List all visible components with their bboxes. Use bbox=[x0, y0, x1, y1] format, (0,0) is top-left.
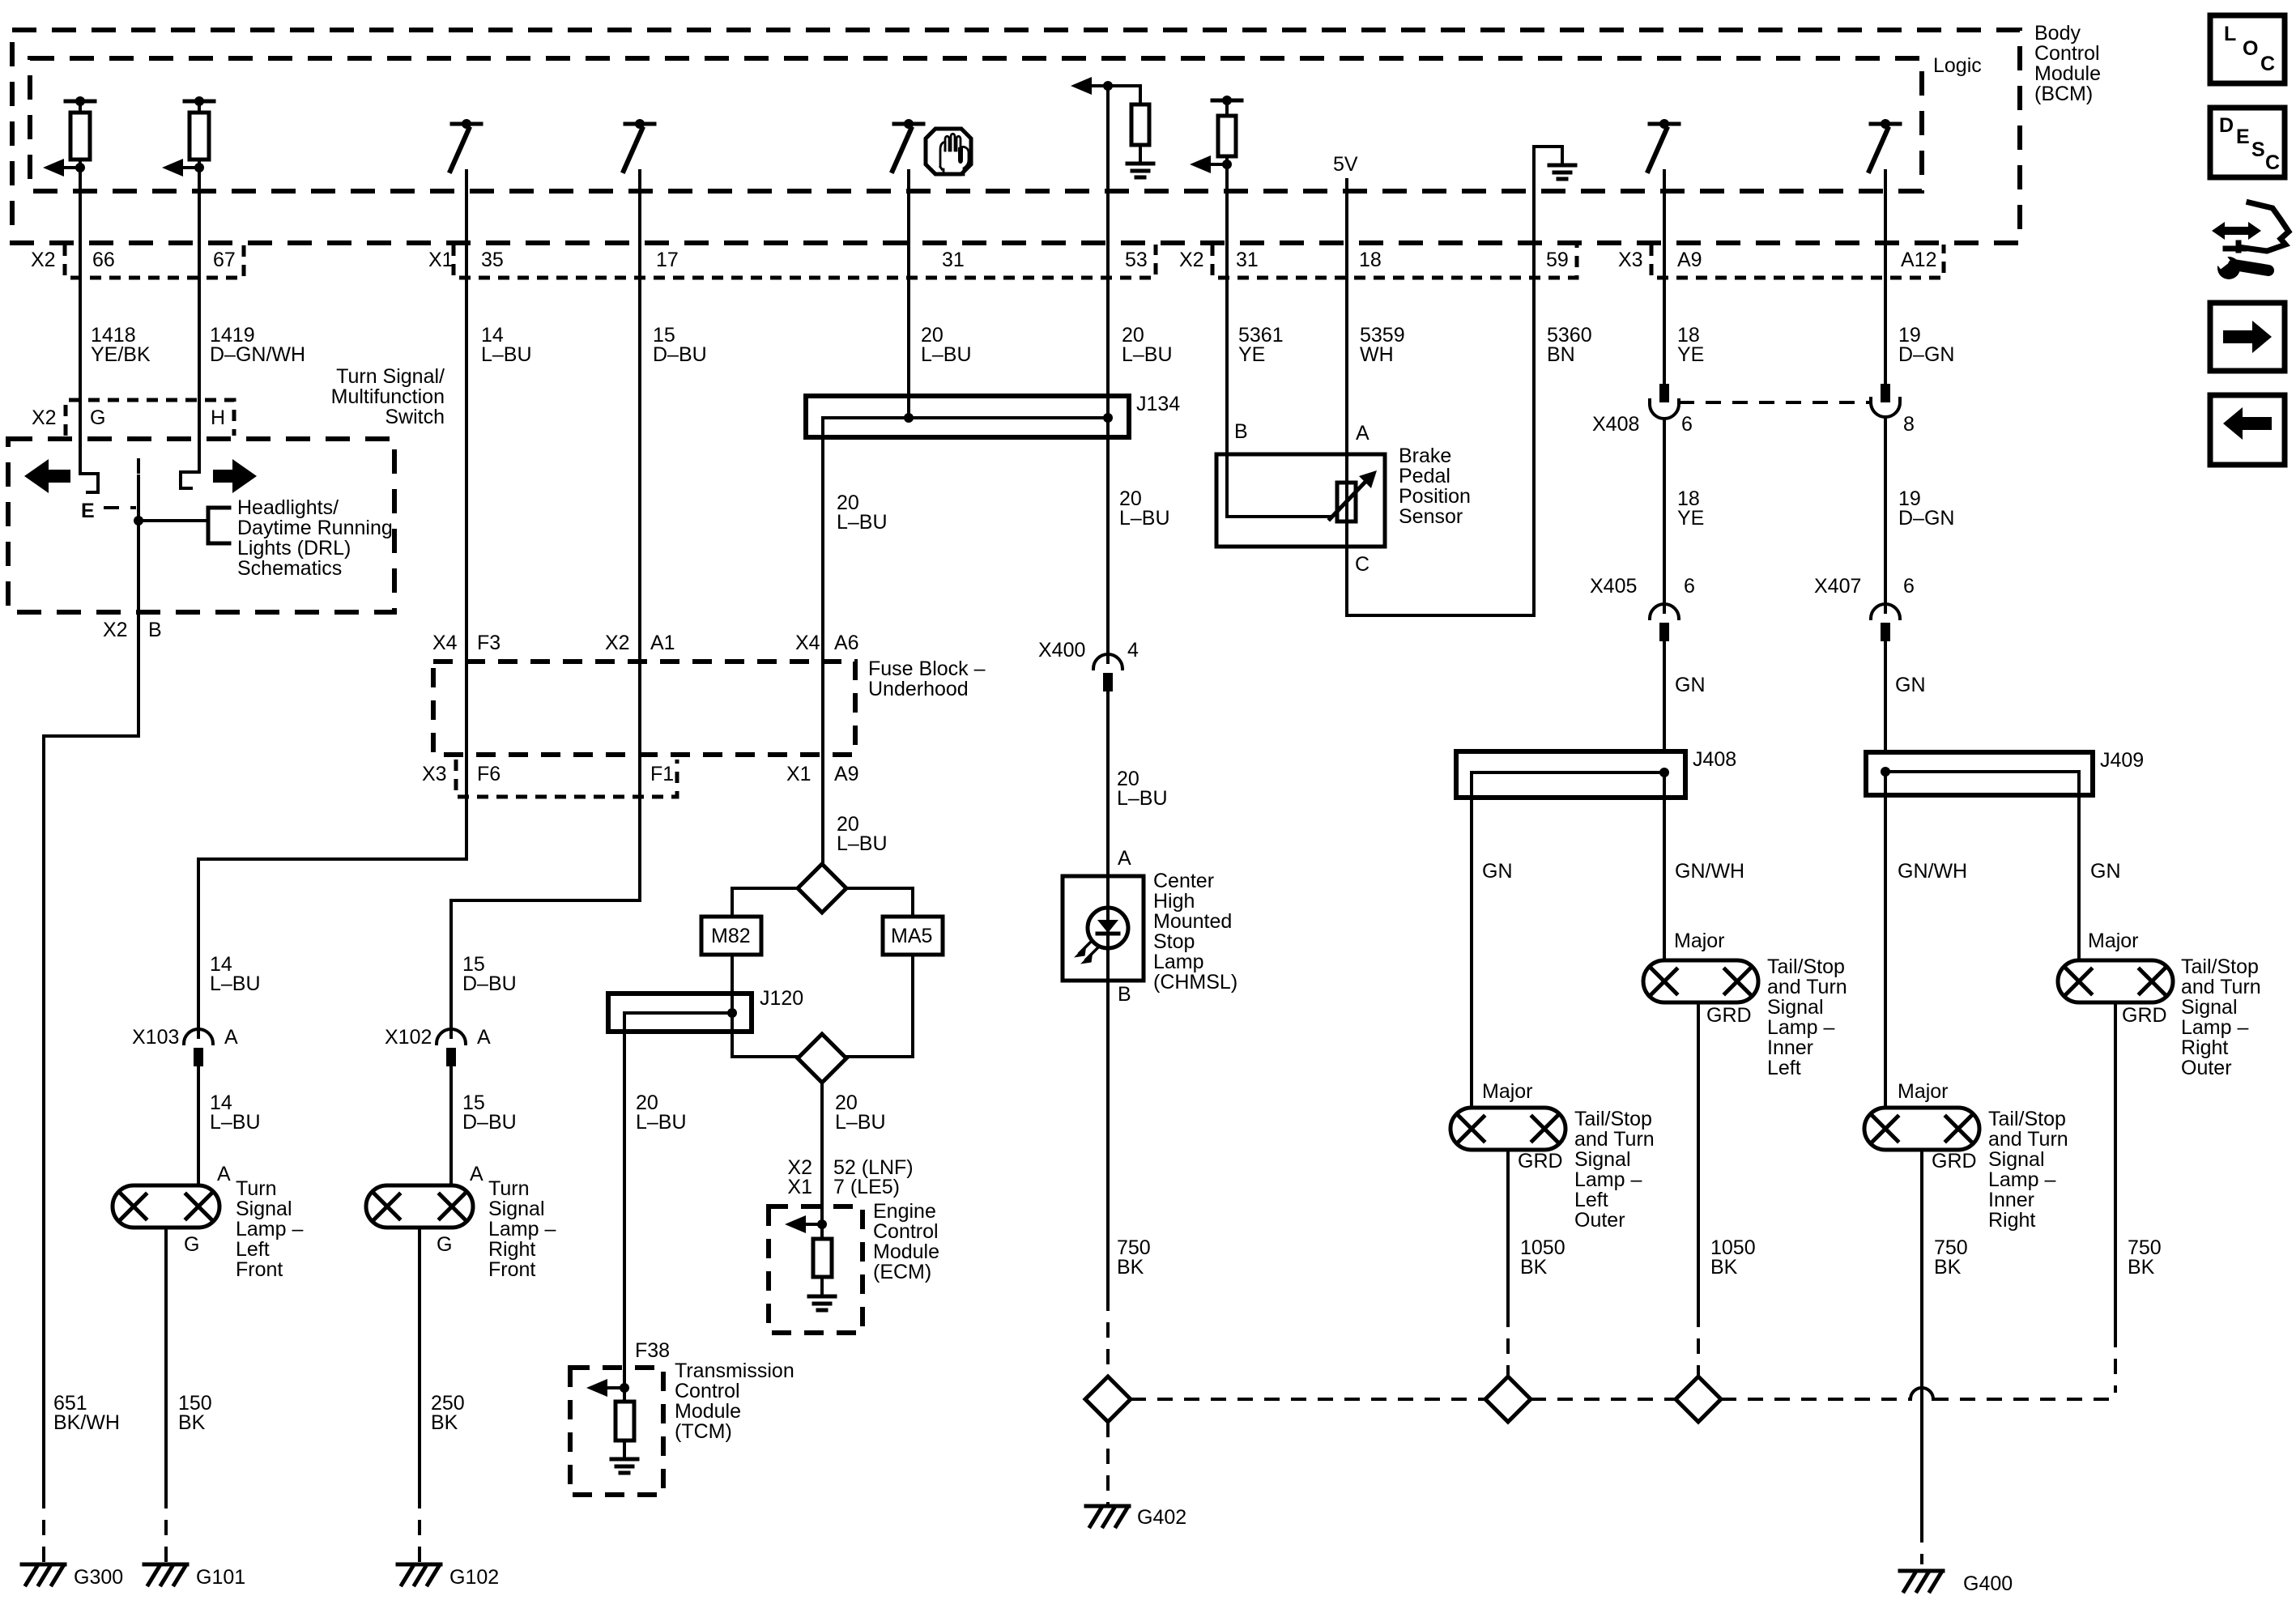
svg-text:Right: Right bbox=[488, 1238, 535, 1261]
wire 651 BK/WH to G300 bbox=[44, 612, 138, 1493]
svg-text:7 (LE5): 7 (LE5) bbox=[833, 1176, 900, 1198]
svg-text:YE: YE bbox=[1677, 343, 1704, 366]
fuse M82/MA5 top splice diamond bbox=[798, 864, 846, 913]
svg-text:Left: Left bbox=[236, 1238, 270, 1261]
splice J120 bbox=[608, 994, 752, 1032]
ground G102 bbox=[398, 1563, 441, 1567]
svg-text:O: O bbox=[2243, 37, 2258, 60]
inline connector X103 pin A bbox=[184, 1029, 213, 1044]
svg-text:B: B bbox=[1118, 983, 1131, 1006]
svg-text:Control: Control bbox=[2034, 42, 2100, 65]
wire 1050 BK left outer bbox=[1506, 1150, 1510, 1312]
svg-text:D–BU: D–BU bbox=[462, 972, 517, 995]
svg-text:Logic: Logic bbox=[1933, 54, 1982, 77]
svg-text:and Turn: and Turn bbox=[1767, 976, 1847, 998]
svg-text:Right: Right bbox=[2181, 1036, 2228, 1059]
wire from pin 67 to right-turn contact bbox=[181, 168, 199, 488]
svg-text:6: 6 bbox=[1684, 575, 1695, 598]
wire 15 D-BU from pin 17 through fuse A1-F1 to X102 bbox=[451, 171, 640, 1037]
svg-text:D–GN: D–GN bbox=[1898, 507, 1954, 530]
svg-text:B: B bbox=[1234, 420, 1248, 443]
DESC icon box bbox=[2210, 108, 2285, 177]
svg-text:Pedal: Pedal bbox=[1399, 465, 1450, 487]
svg-text:BK: BK bbox=[1520, 1256, 1548, 1279]
LOC icon box bbox=[2210, 15, 2285, 83]
wire 20 L-BU from pin 31 to J134 bbox=[907, 171, 910, 418]
resistor driver for pin 66 bbox=[66, 100, 95, 104]
Engine Control Module (ECM) dashed box bbox=[769, 1206, 863, 1333]
wire 14 L-BU from pin 35 through fuse F3-F6 to X103 bbox=[198, 171, 466, 1037]
Center High Mounted Stop Lamp (CHMSL) box bbox=[1063, 876, 1144, 981]
Turn Signal Lamp - Right Front bulb bbox=[366, 1185, 473, 1228]
svg-text:Multifunction: Multifunction bbox=[331, 385, 445, 408]
svg-text:B: B bbox=[148, 619, 162, 641]
Body Control Module (BCM) outer dashed box bbox=[12, 30, 2020, 243]
svg-text:L: L bbox=[2224, 23, 2236, 45]
svg-text:MA5: MA5 bbox=[891, 925, 932, 947]
hand-in-octagon icon bbox=[926, 129, 971, 174]
splice J408 bbox=[1456, 751, 1685, 798]
svg-text:5V: 5V bbox=[1333, 153, 1358, 176]
svg-text:Lamp: Lamp bbox=[1153, 951, 1204, 973]
Logic inner dashed box bbox=[30, 58, 1922, 191]
svg-text:Signal: Signal bbox=[488, 1198, 545, 1220]
svg-text:Tail/Stop: Tail/Stop bbox=[1988, 1108, 2066, 1130]
svg-text:D–BU: D–BU bbox=[462, 1111, 517, 1134]
switch driver for pin A12 bbox=[1871, 122, 1900, 126]
svg-text:Control: Control bbox=[873, 1220, 939, 1243]
svg-text:(BCM): (BCM) bbox=[2034, 83, 2093, 105]
CHMSL internal wire bbox=[1106, 876, 1110, 981]
stop lamp supply: arrow, junction, resistor to ground (pin 53) bbox=[1071, 77, 1092, 95]
svg-text:(ECM): (ECM) bbox=[873, 1261, 931, 1283]
svg-text:F1: F1 bbox=[650, 763, 674, 785]
svg-text:(TCM): (TCM) bbox=[675, 1420, 732, 1443]
svg-text:F3: F3 bbox=[477, 632, 501, 654]
svg-text:YE: YE bbox=[1238, 343, 1265, 366]
connector box X3 pins A9 A12 bbox=[1651, 245, 1944, 278]
svg-text:L–BU: L–BU bbox=[481, 343, 532, 366]
svg-text:J134: J134 bbox=[1136, 393, 1180, 415]
svg-text:Turn: Turn bbox=[488, 1177, 529, 1200]
svg-text:A6: A6 bbox=[834, 632, 859, 654]
svg-text:Right: Right bbox=[1988, 1209, 2035, 1232]
svg-text:Turn Signal/: Turn Signal/ bbox=[336, 365, 445, 388]
connector box X2 right pins 31 18 59 bbox=[1212, 245, 1577, 278]
resistor driver for pin 67 bbox=[185, 100, 214, 104]
svg-text:High: High bbox=[1153, 890, 1195, 913]
svg-text:C: C bbox=[1355, 553, 1370, 576]
inline connector X400 pin 4 bbox=[1106, 615, 1110, 662]
wire 5361 YE from pin 31 to sensor pin B bbox=[1225, 164, 1229, 454]
fuse M82 bbox=[701, 917, 761, 955]
wire MA5 to lower diamond bbox=[846, 955, 913, 1057]
wire from E node to DRL reference bracket bbox=[138, 519, 208, 522]
svg-text:Sensor: Sensor bbox=[1399, 505, 1463, 528]
svg-text:and Turn: and Turn bbox=[1988, 1128, 2068, 1151]
svg-text:L–BU: L–BU bbox=[1119, 507, 1170, 530]
svg-text:X2: X2 bbox=[103, 619, 128, 641]
svg-text:L–BU: L–BU bbox=[1122, 343, 1173, 366]
svg-text:X400: X400 bbox=[1038, 639, 1085, 662]
Tail/Stop lamp left outer bulb bbox=[1450, 1108, 1565, 1150]
go-forward arrow icon box bbox=[2210, 303, 2285, 371]
svg-text:BK/WH: BK/WH bbox=[53, 1411, 120, 1434]
svg-text:Left: Left bbox=[1574, 1189, 1608, 1211]
svg-text:YE: YE bbox=[1677, 507, 1704, 530]
splice J134 bbox=[806, 396, 1129, 437]
svg-text:59: 59 bbox=[1546, 249, 1569, 271]
svg-text:6: 6 bbox=[1681, 413, 1693, 436]
svg-text:X1: X1 bbox=[787, 1176, 812, 1198]
BCM internal ground (pin 59) bbox=[1534, 147, 1562, 165]
svg-text:J408: J408 bbox=[1693, 748, 1736, 771]
wire 250 BK to G102 bbox=[418, 1228, 421, 1493]
svg-text:F38: F38 bbox=[635, 1339, 670, 1362]
inline connector X408 pin 8 bbox=[1881, 384, 1890, 402]
svg-text:Mounted: Mounted bbox=[1153, 910, 1232, 933]
ground G402 bbox=[1086, 1504, 1129, 1508]
Turn Signal/Multifunction Switch dashed box bbox=[8, 439, 394, 612]
svg-text:Left: Left bbox=[1767, 1057, 1801, 1079]
svg-text:A1: A1 bbox=[650, 632, 675, 654]
svg-text:L–BU: L–BU bbox=[1117, 787, 1168, 810]
svg-text:(CHMSL): (CHMSL) bbox=[1153, 971, 1237, 994]
inline connector X408 pin 6 bbox=[1659, 384, 1669, 402]
svg-text:Major: Major bbox=[1482, 1080, 1533, 1103]
svg-text:GN: GN bbox=[1895, 674, 1926, 696]
Tail/Stop lamp right outer bulb bbox=[2058, 960, 2173, 1002]
wire 18 YE from pin A9 to X408-6 bbox=[1663, 171, 1666, 384]
svg-text:Outer: Outer bbox=[2181, 1057, 2232, 1079]
svg-text:BK: BK bbox=[1117, 1256, 1144, 1279]
Tail/Stop lamp inner right bulb bbox=[1864, 1108, 1979, 1150]
svg-text:Lights (DRL): Lights (DRL) bbox=[237, 537, 351, 560]
svg-text:Fuse Block –: Fuse Block – bbox=[868, 657, 986, 680]
svg-text:X1: X1 bbox=[428, 249, 454, 271]
svg-text:Lamp –: Lamp – bbox=[1574, 1168, 1642, 1191]
svg-text:X407: X407 bbox=[1814, 575, 1861, 598]
Brake Pedal Position Sensor box bbox=[1216, 454, 1385, 547]
svg-text:GRD: GRD bbox=[1932, 1150, 1977, 1172]
svg-text:A9: A9 bbox=[1677, 249, 1702, 271]
svg-text:G102: G102 bbox=[449, 1566, 499, 1589]
component location icon (car with arrow and wrench) bbox=[2212, 202, 2289, 279]
svg-text:6: 6 bbox=[1903, 575, 1915, 598]
ground link diamond inner left bbox=[1676, 1377, 1721, 1422]
wire 20 L-BU from diamond to ECM bbox=[820, 1083, 824, 1224]
svg-text:X408: X408 bbox=[1592, 413, 1639, 436]
svg-text:53: 53 bbox=[1125, 249, 1148, 271]
svg-text:X2: X2 bbox=[605, 632, 630, 654]
svg-text:D–BU: D–BU bbox=[653, 343, 707, 366]
svg-text:G: G bbox=[437, 1233, 452, 1256]
wire M82 to J120 bbox=[732, 955, 798, 1057]
svg-text:Tail/Stop: Tail/Stop bbox=[2181, 955, 2259, 978]
connector box F6 F1 bbox=[456, 760, 677, 797]
svg-text:A: A bbox=[1356, 422, 1370, 445]
svg-text:and Turn: and Turn bbox=[2181, 976, 2261, 998]
svg-text:Signal: Signal bbox=[1574, 1148, 1631, 1171]
svg-text:31: 31 bbox=[942, 249, 965, 271]
svg-text:GN: GN bbox=[1675, 674, 1706, 696]
svg-text:Brake: Brake bbox=[1399, 445, 1451, 467]
svg-text:Engine: Engine bbox=[873, 1200, 936, 1223]
svg-text:Daytime Running: Daytime Running bbox=[237, 517, 393, 539]
wire 19 D-GN from pin A12 to X408-8 bbox=[1884, 171, 1887, 384]
svg-text:Module: Module bbox=[675, 1400, 741, 1423]
svg-text:M82: M82 bbox=[711, 925, 751, 947]
svg-text:Control: Control bbox=[675, 1380, 740, 1402]
svg-text:Major: Major bbox=[1898, 1080, 1949, 1103]
svg-text:Lamp –: Lamp – bbox=[1767, 1016, 1834, 1039]
svg-text:A: A bbox=[217, 1163, 231, 1185]
svg-text:GRD: GRD bbox=[1706, 1004, 1752, 1027]
svg-text:Signal: Signal bbox=[1767, 996, 1824, 1019]
svg-text:X102: X102 bbox=[385, 1026, 432, 1049]
svg-text:G: G bbox=[90, 406, 105, 429]
wire 5359 WH 5V to sensor pin A bbox=[1345, 180, 1348, 454]
svg-text:67: 67 bbox=[213, 249, 236, 271]
wire 5360 BN from sensor pin C to pin 59 and BCM ground bbox=[1347, 147, 1534, 615]
inline connector X407 pin 6 bbox=[1871, 604, 1900, 619]
svg-text:Outer: Outer bbox=[1574, 1209, 1625, 1232]
svg-text:X1: X1 bbox=[786, 763, 811, 785]
svg-text:Underhood: Underhood bbox=[868, 678, 969, 700]
svg-text:4: 4 bbox=[1127, 639, 1139, 662]
svg-text:X2: X2 bbox=[1179, 249, 1204, 271]
wire 150 BK to G101 bbox=[164, 1228, 168, 1493]
wire 750 BK right outer bbox=[2114, 1002, 2117, 1332]
svg-text:Lamp –: Lamp – bbox=[488, 1218, 556, 1240]
svg-text:GN: GN bbox=[2090, 860, 2121, 883]
ECM internal arrow and resistor to ground bbox=[785, 1215, 806, 1233]
svg-text:A12: A12 bbox=[1901, 249, 1936, 271]
svg-text:Major: Major bbox=[2088, 930, 2139, 952]
left turn filled arrow bbox=[24, 459, 70, 493]
svg-text:A: A bbox=[477, 1026, 491, 1049]
svg-text:Tail/Stop: Tail/Stop bbox=[1574, 1108, 1652, 1130]
svg-text:E: E bbox=[2236, 126, 2250, 148]
svg-text:YE/BK: YE/BK bbox=[91, 343, 151, 366]
svg-text:Signal: Signal bbox=[2181, 996, 2238, 1019]
svg-text:A: A bbox=[224, 1026, 238, 1049]
DRL reference bracket bbox=[208, 508, 229, 543]
dashed link X408 6 to 8 bbox=[1679, 401, 1871, 404]
connector box X2 pins G H bbox=[66, 400, 234, 436]
connector box X1 pins 35 17 31 53 bbox=[454, 245, 1156, 278]
crossover bump over 750 BK wire bbox=[1910, 1388, 1933, 1399]
svg-text:X2: X2 bbox=[31, 249, 56, 271]
svg-text:66: 66 bbox=[92, 249, 115, 271]
svg-text:BK: BK bbox=[431, 1411, 458, 1434]
svg-text:BK: BK bbox=[178, 1411, 206, 1434]
svg-text:Signal: Signal bbox=[1988, 1148, 2045, 1171]
svg-text:Headlights/: Headlights/ bbox=[237, 496, 339, 519]
svg-text:L–BU: L–BU bbox=[210, 1111, 261, 1134]
CHMSL LED symbol bbox=[1088, 908, 1128, 948]
svg-text:S: S bbox=[2251, 138, 2265, 161]
wire 1050 BK inner left bbox=[1697, 1002, 1700, 1312]
svg-text:X3: X3 bbox=[422, 763, 447, 785]
svg-text:GRD: GRD bbox=[1518, 1150, 1563, 1172]
svg-text:X405: X405 bbox=[1590, 575, 1637, 598]
switch driver for pin 17 bbox=[625, 122, 654, 126]
switch driver for pin 31 (brake) bbox=[894, 122, 923, 126]
svg-text:BK: BK bbox=[1710, 1256, 1738, 1279]
connector box X2 pins 66 67 bbox=[65, 245, 244, 278]
wire 20 L-BU from J120 to TCM F38 bbox=[623, 1013, 626, 1388]
svg-text:31: 31 bbox=[1236, 249, 1259, 271]
inline connector X102 pin A bbox=[437, 1029, 466, 1044]
svg-text:Tail/Stop: Tail/Stop bbox=[1767, 955, 1845, 978]
svg-text:GN/WH: GN/WH bbox=[1898, 860, 1967, 883]
svg-text:Inner: Inner bbox=[1767, 1036, 1813, 1059]
ground G300 bbox=[22, 1563, 65, 1567]
svg-text:WH: WH bbox=[1360, 343, 1394, 366]
svg-text:X4: X4 bbox=[795, 632, 820, 654]
svg-text:A: A bbox=[1118, 847, 1131, 870]
inline connector X405 pin 6 bbox=[1650, 604, 1679, 619]
svg-text:A9: A9 bbox=[834, 763, 859, 785]
svg-text:Inner: Inner bbox=[1988, 1189, 2034, 1211]
wire 20 L-BU from J134 to fuse A6-A9 bbox=[821, 418, 824, 864]
svg-text:J120: J120 bbox=[760, 987, 803, 1010]
svg-text:Module: Module bbox=[2034, 62, 2101, 85]
svg-text:X103: X103 bbox=[132, 1026, 179, 1049]
switch driver for pin A9 bbox=[1650, 122, 1679, 126]
svg-text:Module: Module bbox=[873, 1240, 939, 1263]
svg-text:and Turn: and Turn bbox=[1574, 1128, 1655, 1151]
ground link diamond left outer bbox=[1485, 1377, 1531, 1422]
svg-text:L–BU: L–BU bbox=[636, 1111, 687, 1134]
Transmission Control Module (TCM) dashed box bbox=[570, 1368, 663, 1495]
svg-text:Position: Position bbox=[1399, 485, 1471, 508]
svg-text:G101: G101 bbox=[196, 1566, 245, 1589]
go-back arrow icon box bbox=[2210, 395, 2285, 465]
svg-text:L–BU: L–BU bbox=[837, 511, 888, 534]
svg-text:GN/WH: GN/WH bbox=[1675, 860, 1744, 883]
svg-text:Lamp –: Lamp – bbox=[2181, 1016, 2248, 1039]
fuse branch wires bbox=[732, 888, 798, 917]
svg-text:Schematics: Schematics bbox=[237, 557, 342, 580]
svg-text:GRD: GRD bbox=[2122, 1004, 2167, 1027]
svg-text:Front: Front bbox=[488, 1258, 535, 1281]
svg-text:F6: F6 bbox=[477, 763, 501, 785]
wire 750 BK from CHMSL to G402 bbox=[1106, 981, 1110, 1296]
svg-text:Transmission: Transmission bbox=[675, 1360, 794, 1382]
svg-text:Front: Front bbox=[236, 1258, 283, 1281]
svg-text:17: 17 bbox=[656, 249, 679, 271]
svg-text:BN: BN bbox=[1547, 343, 1575, 366]
Fuse Block - Underhood dashed box bbox=[433, 662, 855, 755]
svg-text:35: 35 bbox=[481, 249, 504, 271]
svg-text:G402: G402 bbox=[1137, 1506, 1186, 1529]
svg-text:X2: X2 bbox=[32, 406, 57, 429]
svg-text:G300: G300 bbox=[74, 1566, 123, 1589]
svg-text:J409: J409 bbox=[2100, 749, 2144, 772]
svg-text:E: E bbox=[81, 500, 95, 522]
svg-text:L–BU: L–BU bbox=[210, 972, 261, 995]
TCM internal arrow and resistor to ground bbox=[586, 1379, 607, 1397]
svg-text:D–GN/WH: D–GN/WH bbox=[210, 343, 305, 366]
svg-text:Major: Major bbox=[1674, 930, 1725, 952]
svg-text:X4: X4 bbox=[432, 632, 458, 654]
svg-text:L–BU: L–BU bbox=[835, 1111, 886, 1134]
ground G400 bbox=[1900, 1569, 1943, 1573]
svg-text:D–GN: D–GN bbox=[1898, 343, 1954, 366]
wire 750 BK inner right to G400 bbox=[1920, 1150, 1923, 1527]
svg-text:Body: Body bbox=[2034, 22, 2081, 45]
svg-text:GN: GN bbox=[1482, 860, 1513, 883]
svg-text:L–BU: L–BU bbox=[837, 832, 888, 855]
Turn Signal Lamp - Left Front bulb bbox=[113, 1185, 219, 1228]
svg-text:Stop: Stop bbox=[1153, 930, 1195, 953]
svg-text:D: D bbox=[2219, 114, 2234, 137]
fuse MA5 bbox=[883, 917, 943, 955]
sensor internals: wiper and potentiometer bbox=[1227, 454, 1330, 517]
svg-text:H: H bbox=[211, 406, 225, 429]
svg-text:Center: Center bbox=[1153, 870, 1214, 892]
svg-text:L–BU: L–BU bbox=[921, 343, 972, 366]
switch driver for pin 35 bbox=[452, 122, 481, 126]
Tail/Stop lamp inner left bulb bbox=[1643, 960, 1758, 1002]
svg-text:X3: X3 bbox=[1618, 249, 1643, 271]
svg-text:G400: G400 bbox=[1963, 1572, 2013, 1595]
dashed ground link line bbox=[1131, 1398, 1485, 1401]
right turn filled arrow bbox=[213, 459, 257, 493]
svg-text:C: C bbox=[2265, 151, 2280, 174]
ground link diamond at CHMSL bbox=[1085, 1377, 1131, 1422]
svg-text:BK: BK bbox=[2128, 1256, 2155, 1279]
wire from pin 66 to left-turn contact bbox=[80, 168, 98, 492]
svg-text:Turn: Turn bbox=[236, 1177, 276, 1200]
svg-text:Signal: Signal bbox=[236, 1198, 292, 1220]
wire 20 L-BU from pin 53 through J134 to X400 bbox=[1106, 86, 1110, 615]
svg-text:C: C bbox=[2260, 53, 2275, 75]
svg-text:A: A bbox=[470, 1163, 483, 1185]
svg-text:18: 18 bbox=[1359, 249, 1382, 271]
svg-text:BK: BK bbox=[1934, 1256, 1962, 1279]
svg-text:8: 8 bbox=[1903, 413, 1915, 436]
svg-text:Lamp –: Lamp – bbox=[236, 1218, 303, 1240]
ground G101 bbox=[144, 1563, 187, 1567]
svg-text:G: G bbox=[184, 1233, 199, 1256]
splice J409 bbox=[1866, 752, 2093, 795]
svg-text:Lamp –: Lamp – bbox=[1988, 1168, 2055, 1191]
svg-text:Switch: Switch bbox=[385, 406, 445, 428]
lower splice diamond bbox=[798, 1034, 846, 1083]
wire from E node down to pin B bbox=[137, 476, 140, 612]
resistor driver for pin 31 right (5361) bbox=[1212, 99, 1242, 103]
